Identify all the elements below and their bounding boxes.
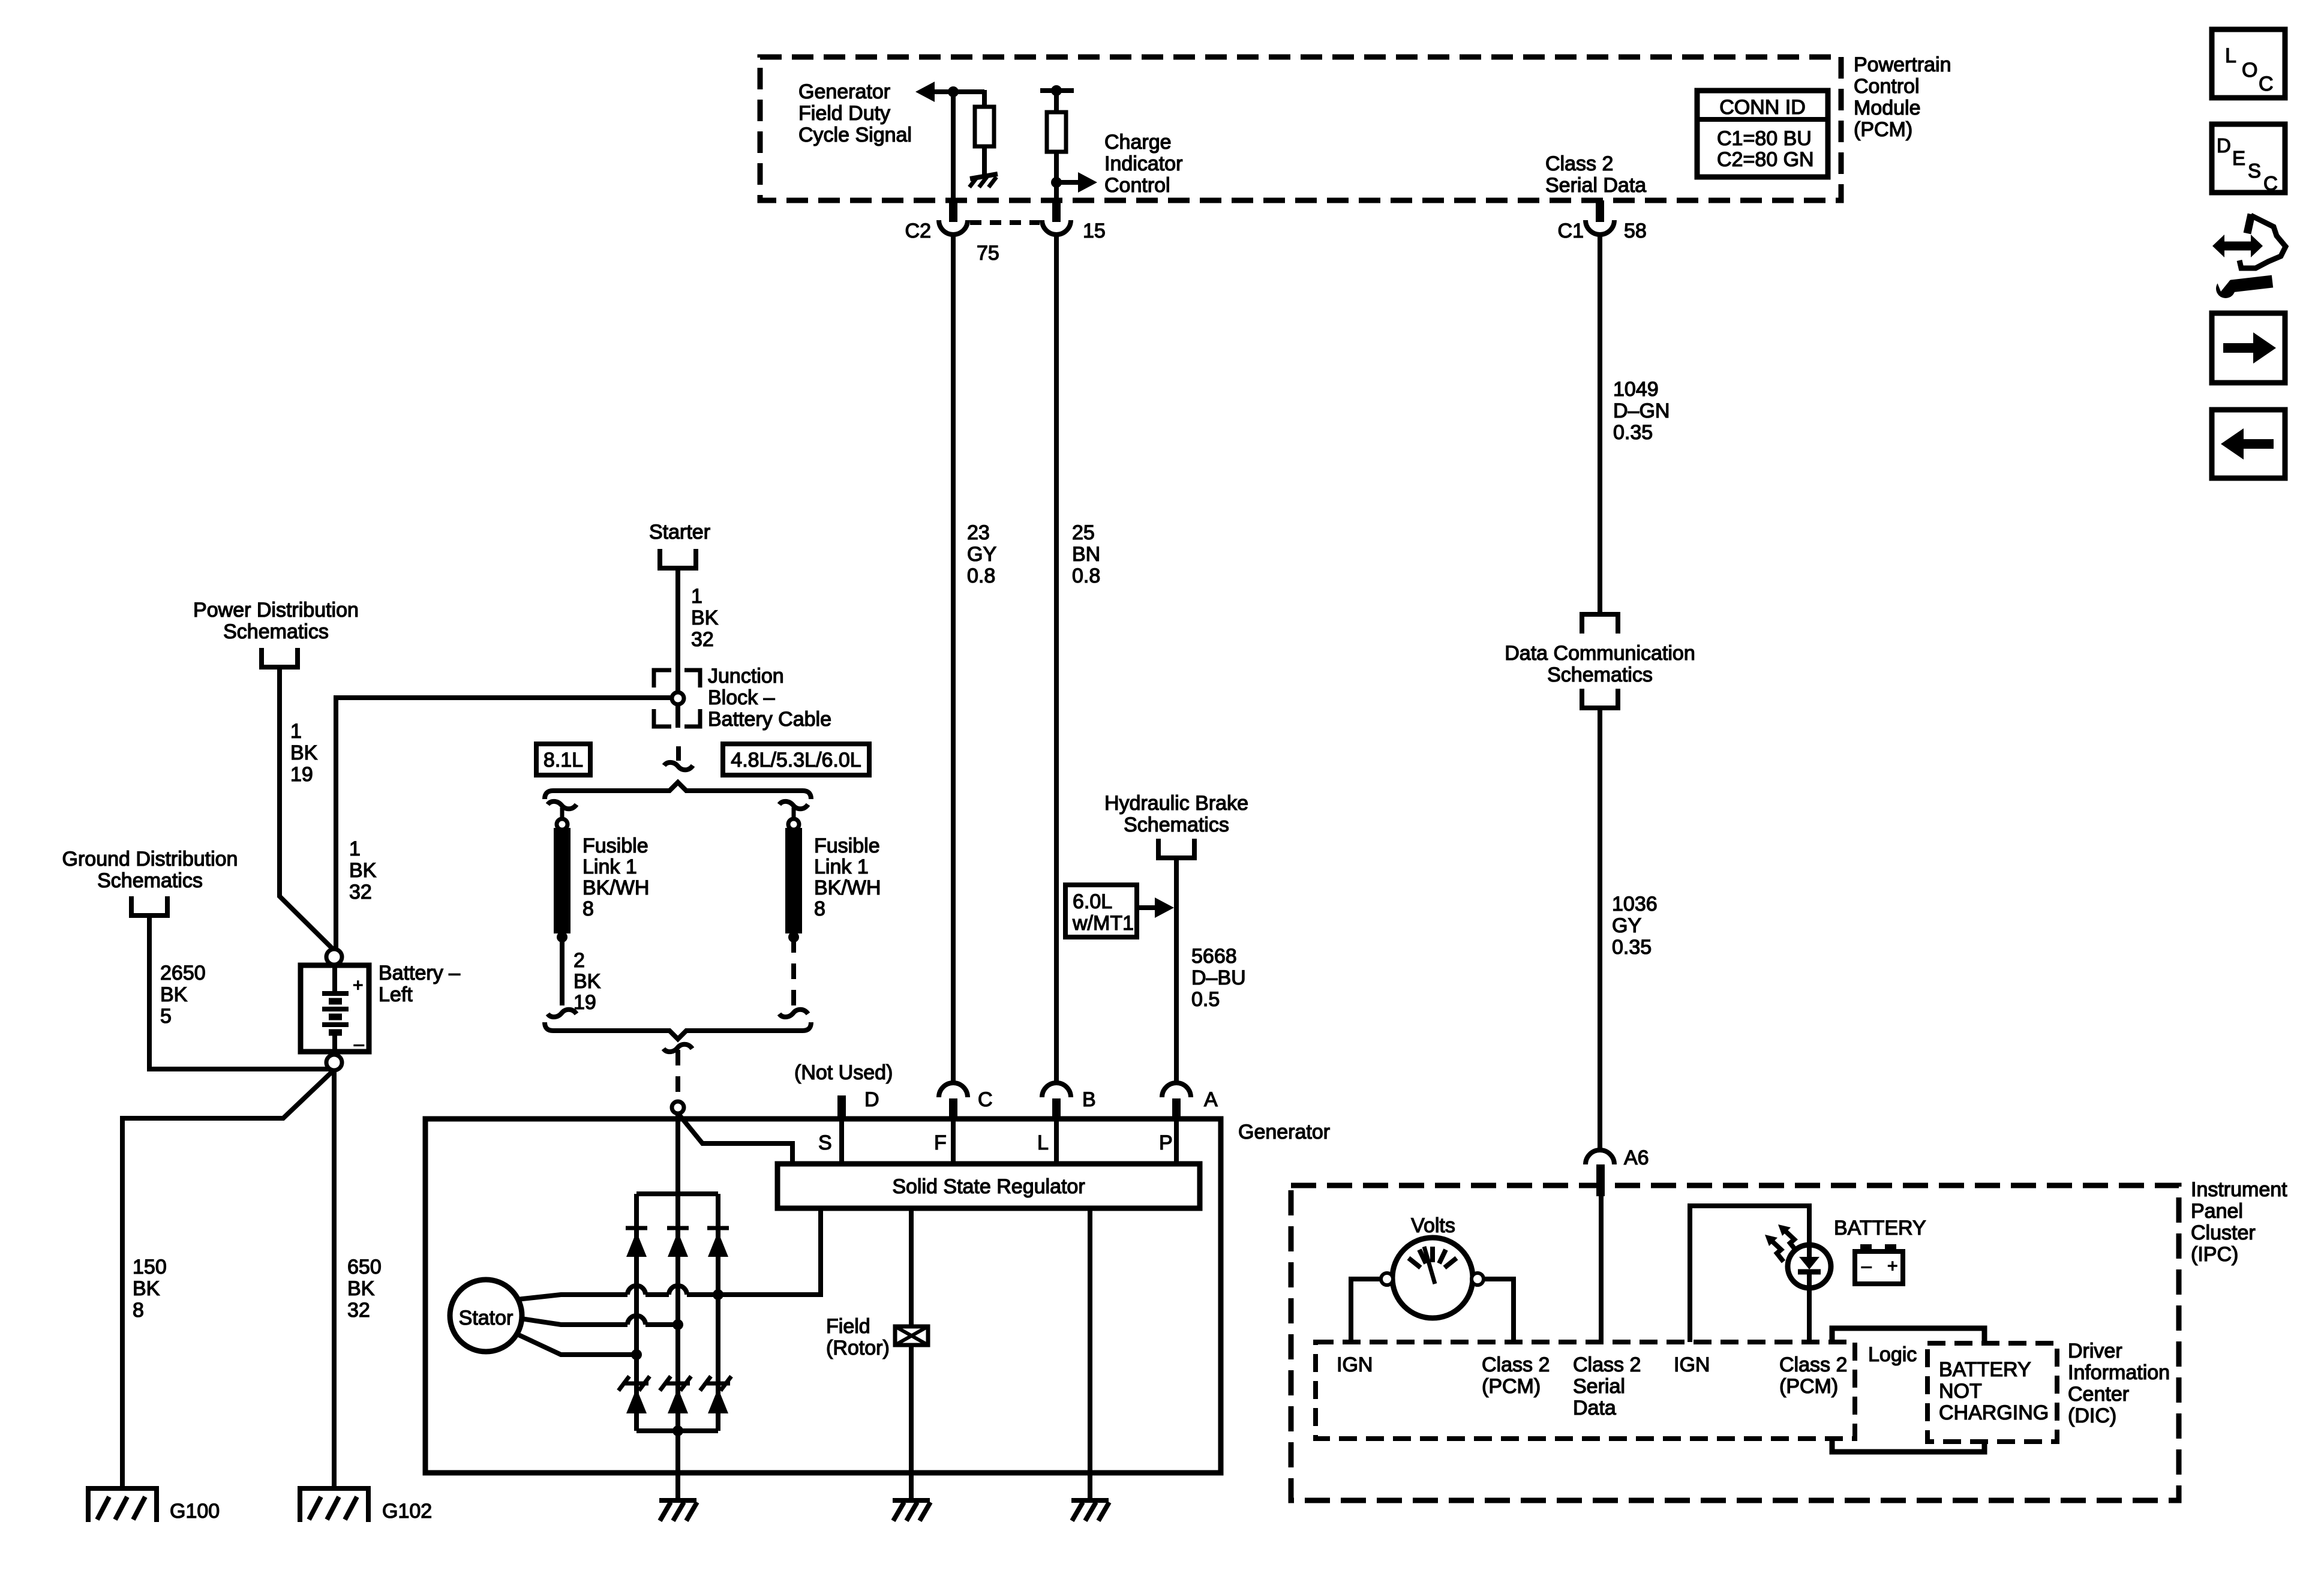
svg-text:0.35: 0.35 bbox=[1612, 936, 1652, 959]
icon back arrow box bbox=[2212, 410, 2285, 478]
svg-text:Control: Control bbox=[1854, 75, 1920, 98]
wire PCM internal horizontal pin 15 net bbox=[1040, 88, 1074, 93]
svg-text:58: 58 bbox=[1624, 220, 1647, 242]
svg-text:Class 2: Class 2 bbox=[1545, 152, 1613, 175]
svg-text:Center: Center bbox=[2068, 1383, 2129, 1406]
svg-text:CHARGING: CHARGING bbox=[1939, 1401, 2049, 1424]
svg-text:BK/WH: BK/WH bbox=[582, 876, 649, 899]
svg-text:2: 2 bbox=[574, 949, 585, 972]
svg-text:(PCM): (PCM) bbox=[1854, 118, 1912, 141]
svg-text:1: 1 bbox=[290, 720, 302, 743]
svg-text:BK: BK bbox=[160, 983, 188, 1006]
svg-text:8: 8 bbox=[582, 897, 594, 920]
wire 1 BK 19 from power distribution bbox=[280, 667, 334, 950]
node fusible link top circle (right) bbox=[788, 819, 799, 830]
svg-text:L: L bbox=[2225, 44, 2236, 67]
gauge M1 volts meter circle bbox=[1392, 1238, 1473, 1318]
off-page connector Hydraulic Brake Schematics bracket bbox=[1158, 839, 1194, 858]
wire pin P internal bbox=[1174, 1121, 1179, 1164]
wire rectifier top bus bbox=[636, 1191, 718, 1196]
svg-text:+: + bbox=[1887, 1256, 1898, 1276]
wire stator phase 3 bbox=[515, 1333, 636, 1355]
fusible link 1 BK/WH 8 (8.1L branch) bbox=[554, 828, 571, 933]
wire pin S internal bbox=[839, 1121, 844, 1164]
connector B stub bbox=[1052, 1098, 1061, 1119]
ground G100 bbox=[86, 1486, 159, 1491]
svg-text:GY: GY bbox=[1612, 914, 1641, 937]
svg-text:(DIC): (DIC) bbox=[2068, 1404, 2116, 1427]
battery B1 bottom lead bbox=[332, 1032, 337, 1052]
ground rectifier bridge bbox=[659, 1498, 696, 1503]
svg-text:75: 75 bbox=[977, 242, 999, 265]
svg-text:–: – bbox=[1861, 1256, 1872, 1276]
icon forward arrow box bbox=[2212, 313, 2285, 383]
wire rectifier bottom bus bbox=[636, 1428, 718, 1433]
connector C1 pin 15 stub bbox=[1052, 200, 1061, 222]
svg-text:8: 8 bbox=[133, 1299, 144, 1322]
off-page connector Starter bracket bbox=[660, 549, 696, 568]
wire 6.0L w/MT1 arrow lead bbox=[1137, 905, 1156, 910]
svg-text:G100: G100 bbox=[170, 1500, 220, 1523]
connector A6 stub into IPC bbox=[1596, 1164, 1605, 1196]
svg-text:(Not Used): (Not Used) bbox=[794, 1061, 893, 1084]
logic block box bbox=[1832, 1328, 1984, 1344]
node generator battery output node bbox=[672, 1101, 684, 1113]
svg-text:(PCM): (PCM) bbox=[1779, 1375, 1838, 1398]
node junction dot on pin 75 net bbox=[948, 86, 959, 97]
generator box bbox=[425, 1119, 1221, 1473]
connector C1 pin 15 half-circle bbox=[1042, 220, 1071, 235]
gauge M1 needle bbox=[1424, 1247, 1435, 1284]
battery telltale icon body bbox=[1855, 1251, 1903, 1284]
wire break hook below junction block bbox=[676, 746, 681, 761]
LED charge indicator circle bbox=[1788, 1245, 1831, 1288]
svg-text:4.8L/5.3L/6.0L: 4.8L/5.3L/6.0L bbox=[731, 749, 861, 772]
BATTERY NOT CHARGING dashed message box bbox=[1927, 1343, 2057, 1442]
wire 2650 BK 5 ground distribution bbox=[149, 915, 330, 1069]
svg-text:O: O bbox=[2242, 59, 2257, 82]
node battery positive terminal bbox=[326, 949, 342, 965]
svg-text:Link 1: Link 1 bbox=[814, 855, 869, 878]
svg-text:BK/WH: BK/WH bbox=[814, 876, 881, 899]
connector C1 pin 58 half-circle bbox=[1586, 220, 1614, 235]
svg-text:Ground Distribution: Ground Distribution bbox=[62, 848, 238, 870]
node phase 2 to column 2 bbox=[672, 1319, 683, 1330]
PCM module dashed box (Powertrain Control Module) bbox=[760, 57, 1841, 200]
icon diagnostic connector outline bbox=[2247, 214, 2251, 233]
wire 25 BN 0.8 from PCM C1-15 to generator L bbox=[1054, 235, 1059, 1083]
svg-text:Serial Data: Serial Data bbox=[1545, 174, 1646, 197]
svg-text:Battery –: Battery – bbox=[379, 962, 460, 984]
svg-text:+: + bbox=[353, 975, 364, 995]
svg-text:B: B bbox=[1082, 1088, 1096, 1111]
svg-text:C2: C2 bbox=[905, 220, 931, 242]
icon wrench bbox=[2216, 279, 2235, 298]
node battery negative terminal bbox=[326, 1055, 342, 1070]
stator winding circle bbox=[450, 1280, 522, 1352]
off-page connector Power Distribution Schematics bracket bbox=[262, 648, 298, 667]
wire 650 BK 32 battery negative to G102 bbox=[332, 1070, 337, 1488]
svg-text:Class 2: Class 2 bbox=[1482, 1353, 1550, 1376]
wire 5668 D-BU 0.5 to generator P bbox=[1174, 858, 1179, 1083]
svg-text:Schematics: Schematics bbox=[1547, 664, 1653, 686]
svg-text:Information: Information bbox=[2068, 1361, 2170, 1384]
svg-text:Junction: Junction bbox=[708, 665, 784, 688]
IPC dashed box (Instrument Panel Cluster) bbox=[1291, 1185, 2179, 1500]
wire 1036 GY 0.35 class 2 serial data lower bbox=[1598, 708, 1602, 1150]
svg-text:1036: 1036 bbox=[1612, 893, 1658, 915]
wire to charge indicator control arrow bbox=[1056, 180, 1078, 185]
hook terminal top of fusible link 1 (4.8/5.3/6.0 branch) bbox=[779, 801, 808, 809]
wire pin L internal bbox=[1054, 1121, 1059, 1164]
svg-text:5: 5 bbox=[160, 1005, 172, 1028]
svg-text:C2=80 GN: C2=80 GN bbox=[1717, 148, 1814, 171]
connector C half-circle at generator bbox=[939, 1083, 968, 1097]
icon DESC box bbox=[2212, 124, 2285, 193]
svg-text:Cycle Signal: Cycle Signal bbox=[798, 124, 912, 146]
icon LOC box bbox=[2212, 29, 2285, 98]
svg-text:Schematics: Schematics bbox=[97, 869, 203, 892]
svg-text:Class 2: Class 2 bbox=[1779, 1353, 1847, 1376]
svg-text:Instrument: Instrument bbox=[2191, 1178, 2287, 1201]
svg-text:CONN ID: CONN ID bbox=[1719, 96, 1806, 119]
diode D6 lower column 3 bbox=[706, 1382, 730, 1386]
wire resistor R1 top lead bbox=[982, 90, 987, 107]
svg-text:Data: Data bbox=[1573, 1397, 1616, 1419]
wire volts gauge class 2 side bbox=[1484, 1279, 1514, 1342]
svg-text:IGN: IGN bbox=[1674, 1353, 1710, 1376]
LED indicator arrows bbox=[1785, 1230, 1797, 1251]
junction block dashed corner top-left bbox=[654, 670, 671, 688]
gauge M1 right terminal bbox=[1472, 1273, 1484, 1285]
svg-text:S: S bbox=[818, 1131, 832, 1154]
svg-text:6.0L: 6.0L bbox=[1073, 890, 1112, 913]
junction block dashed corner bottom-right bbox=[684, 709, 700, 727]
label 6.0L w/MT1 option box bbox=[1065, 885, 1137, 937]
wire generator node into rectifier bridge bbox=[675, 1113, 680, 1194]
wire 2 BK 19 below fusible link bbox=[560, 937, 565, 1005]
svg-text:32: 32 bbox=[347, 1299, 370, 1322]
node junction dot on pin 15 net top bbox=[1051, 85, 1062, 96]
svg-text:L: L bbox=[1037, 1131, 1049, 1154]
wire PCM internal horizontal to resistor R1 bbox=[933, 89, 984, 94]
wire class 2 serial data into IPC bbox=[1599, 1194, 1604, 1342]
wire battery node feed to regulator bbox=[679, 1115, 792, 1164]
svg-text:150: 150 bbox=[133, 1256, 167, 1278]
svg-text:Fusible: Fusible bbox=[582, 834, 648, 857]
svg-text:19: 19 bbox=[290, 763, 313, 786]
wire stator phase 2 bbox=[521, 1319, 627, 1325]
icon diagnostic connector double arrow bbox=[2222, 242, 2253, 251]
svg-text:1: 1 bbox=[691, 585, 702, 608]
svg-text:Block –: Block – bbox=[708, 686, 775, 709]
off-page connector Ground Distribution Schematics bracket bbox=[131, 896, 167, 915]
svg-text:Panel: Panel bbox=[2191, 1200, 2243, 1223]
brace bottom of fusible link branches bbox=[545, 1022, 811, 1039]
svg-text:IGN: IGN bbox=[1337, 1353, 1373, 1376]
junction block dashed corner bottom-left bbox=[654, 709, 671, 727]
svg-text:S: S bbox=[2248, 160, 2261, 182]
svg-text:8: 8 bbox=[814, 897, 825, 920]
wire IGN feed to charge indicator LED bbox=[1690, 1206, 1809, 1342]
svg-text:D–GN: D–GN bbox=[1613, 400, 1670, 422]
svg-text:Schematics: Schematics bbox=[1124, 813, 1229, 836]
battery telltale icon terminals bbox=[1860, 1244, 1872, 1251]
battery B1 plates bbox=[322, 991, 349, 996]
wire resistor R1 bottom lead bbox=[982, 146, 987, 176]
diode D4 lower column 1 bbox=[624, 1382, 648, 1386]
svg-text:32: 32 bbox=[349, 881, 372, 903]
svg-text:Battery Cable: Battery Cable bbox=[708, 708, 831, 731]
LED triangle bbox=[1799, 1257, 1819, 1269]
wire dashed below right fusible link bbox=[791, 937, 796, 1005]
hook terminal bottom (8.1L branch) bbox=[548, 1010, 577, 1017]
connector C stub bbox=[949, 1098, 957, 1119]
svg-text:Link 1: Link 1 bbox=[582, 855, 637, 878]
svg-text:P: P bbox=[1159, 1131, 1173, 1154]
wire dashed into generator node bbox=[675, 1076, 680, 1103]
svg-text:Driver: Driver bbox=[2068, 1340, 2122, 1362]
wire rectifier column 3 bbox=[716, 1194, 720, 1431]
svg-text:C: C bbox=[2259, 73, 2274, 95]
svg-text:8.1L: 8.1L bbox=[544, 749, 583, 772]
svg-text:C: C bbox=[2263, 172, 2278, 194]
wire rectifier column 1 bbox=[634, 1194, 639, 1431]
connector A6 half-circle bbox=[1586, 1150, 1614, 1164]
wire volts gauge IGN side bbox=[1351, 1279, 1381, 1342]
node rectifier bottom bus center bbox=[672, 1425, 683, 1436]
svg-text:Charge: Charge bbox=[1104, 131, 1172, 154]
gauge M1 tick marks bbox=[1409, 1258, 1421, 1268]
svg-text:NOT: NOT bbox=[1939, 1380, 1982, 1403]
svg-text:(Rotor): (Rotor) bbox=[826, 1337, 890, 1359]
diode D3 upper column 3 bbox=[707, 1226, 729, 1230]
svg-text:Class 2: Class 2 bbox=[1573, 1353, 1641, 1376]
connector stub pin D (not used) bbox=[837, 1095, 846, 1119]
svg-text:Schematics: Schematics bbox=[223, 620, 329, 643]
CONN ID header divider bbox=[1697, 117, 1828, 122]
svg-text:BK: BK bbox=[290, 742, 318, 764]
connector B half-circle at generator bbox=[1042, 1083, 1071, 1097]
svg-text:Powertrain: Powertrain bbox=[1854, 53, 1951, 76]
fusible link 1 BK/WH 8 (4.8/5.3/6.0 branch) bbox=[785, 828, 802, 933]
wire regulator right leg to ground bbox=[1088, 1208, 1092, 1500]
svg-text:D: D bbox=[864, 1088, 879, 1111]
hook terminal bottom (right branch) bbox=[779, 1010, 808, 1017]
svg-text:A6: A6 bbox=[1624, 1146, 1649, 1169]
svg-text:15: 15 bbox=[1083, 220, 1106, 242]
svg-text:w/MT1: w/MT1 bbox=[1072, 912, 1134, 935]
svg-text:25: 25 bbox=[1072, 521, 1095, 544]
svg-text:Indicator: Indicator bbox=[1104, 152, 1182, 175]
svg-text:F: F bbox=[934, 1131, 947, 1154]
svg-text:–: – bbox=[354, 1034, 364, 1054]
svg-text:(PCM): (PCM) bbox=[1482, 1375, 1541, 1398]
wire pin 15 vertical lower bbox=[1054, 152, 1059, 200]
svg-text:BN: BN bbox=[1072, 543, 1100, 566]
label 4.8L/5.3L/6.0L option box bbox=[723, 744, 869, 775]
svg-text:E: E bbox=[2232, 147, 2245, 169]
svg-text:0.5: 0.5 bbox=[1191, 988, 1220, 1011]
svg-text:Data Communication: Data Communication bbox=[1505, 642, 1695, 665]
battery B1 Battery - Left box bbox=[301, 965, 369, 1052]
svg-text:Field: Field bbox=[826, 1315, 870, 1338]
wire battery negative diagonal to G100 branch bbox=[122, 1072, 332, 1488]
wire 1 BK 32 starter to junction block bbox=[675, 568, 680, 692]
svg-text:BK: BK bbox=[574, 970, 601, 993]
wire 1 BK 32 battery to junction block bbox=[336, 698, 672, 949]
svg-text:C1=80 BU: C1=80 BU bbox=[1717, 127, 1812, 150]
svg-text:Cluster: Cluster bbox=[2191, 1221, 2256, 1244]
svg-text:BK: BK bbox=[691, 607, 719, 629]
svg-text:Generator: Generator bbox=[1238, 1121, 1330, 1143]
svg-text:1049: 1049 bbox=[1613, 378, 1659, 401]
ground internal PCM ground for R1 bbox=[970, 174, 998, 179]
node fusible link bottom dot (8.1L) bbox=[557, 932, 568, 942]
svg-text:D: D bbox=[2217, 134, 2231, 157]
junction block dashed corner top-right bbox=[684, 670, 700, 688]
svg-text:BATTERY: BATTERY bbox=[1834, 1217, 1926, 1239]
svg-text:C: C bbox=[978, 1088, 993, 1111]
label 8.1L option box bbox=[536, 744, 590, 775]
off-page connector Data Communication Schematics top bracket bbox=[1582, 614, 1618, 634]
gauge M1 left terminal bbox=[1381, 1273, 1393, 1285]
diode D2 upper column 2 bbox=[667, 1226, 689, 1230]
svg-text:BK: BK bbox=[347, 1277, 375, 1300]
arrow 6.0L w/MT1 points to wire bbox=[1155, 897, 1174, 918]
svg-text:5668: 5668 bbox=[1191, 945, 1237, 968]
node phase 1 to column 3 bbox=[713, 1289, 723, 1300]
svg-text:BK: BK bbox=[349, 859, 377, 882]
node junction dot charge indicator control tap bbox=[1051, 177, 1062, 188]
resistor R2 (charge indicator driver) bbox=[1047, 112, 1066, 152]
svg-text:Field Duty: Field Duty bbox=[798, 102, 890, 125]
svg-text:G102: G102 bbox=[382, 1500, 432, 1523]
diode D1 upper column 1 bbox=[626, 1226, 647, 1230]
ground field rotor bbox=[893, 1498, 930, 1503]
connector C2 pin 75 stub bbox=[949, 200, 957, 222]
wire pin 75 vertical inside PCM bbox=[951, 92, 956, 200]
CONN ID table box bbox=[1697, 91, 1828, 177]
svg-text:BATTERY: BATTERY bbox=[1939, 1358, 2031, 1381]
svg-text:Solid State Regulator: Solid State Regulator bbox=[892, 1175, 1085, 1198]
connector A stub bbox=[1172, 1098, 1181, 1119]
svg-text:Module: Module bbox=[1854, 97, 1921, 119]
wire LED to class 2 (PCM) pin bbox=[1807, 1288, 1812, 1342]
svg-text:A: A bbox=[1204, 1088, 1218, 1111]
wire rectifier to case ground bbox=[675, 1431, 680, 1500]
wire 1049 D-GN 0.35 class 2 serial data upper bbox=[1598, 235, 1602, 614]
node fusible link top circle (8.1L) bbox=[557, 819, 568, 830]
wire junction block down stub bbox=[675, 704, 680, 728]
connector dashed tie line C2 to C1 bbox=[970, 220, 1040, 225]
resistor R1 (PCM pull-down) bbox=[975, 107, 994, 146]
hook terminal top of fusible link 1 (8.1L branch) bbox=[548, 801, 577, 809]
svg-text:Volts: Volts bbox=[1411, 1214, 1455, 1237]
svg-text:650: 650 bbox=[347, 1256, 382, 1278]
svg-text:Control: Control bbox=[1104, 174, 1170, 197]
svg-text:GY: GY bbox=[967, 543, 996, 566]
node phase 3 to column 1 bbox=[631, 1349, 642, 1360]
wire regulator to field rotor bbox=[909, 1208, 914, 1326]
IPC internal dashed interface box bbox=[1316, 1342, 1855, 1439]
svg-text:C1: C1 bbox=[1558, 220, 1584, 242]
wire rectifier column 2 bbox=[675, 1194, 680, 1431]
battery B1 top lead bbox=[332, 965, 337, 992]
wire pin F internal bbox=[951, 1121, 956, 1164]
svg-text:D–BU: D–BU bbox=[1191, 966, 1246, 989]
svg-text:1: 1 bbox=[349, 837, 361, 860]
svg-text:Stator: Stator bbox=[459, 1307, 514, 1329]
node fusible link bottom dot (right) bbox=[788, 932, 799, 942]
svg-text:Hydraulic Brake: Hydraulic Brake bbox=[1104, 792, 1248, 815]
svg-text:Logic: Logic bbox=[1868, 1343, 1917, 1366]
svg-text:Starter: Starter bbox=[649, 521, 710, 544]
svg-text:(IPC): (IPC) bbox=[2191, 1243, 2238, 1266]
svg-text:19: 19 bbox=[574, 991, 596, 1014]
arrow Charge Indicator Control output bbox=[1078, 172, 1097, 193]
node junction block battery cable splice bbox=[672, 692, 684, 704]
svg-text:0.35: 0.35 bbox=[1613, 421, 1653, 444]
svg-text:Left: Left bbox=[379, 983, 413, 1006]
svg-text:0.8: 0.8 bbox=[967, 565, 995, 587]
connector A half-circle at generator bbox=[1162, 1083, 1191, 1097]
svg-text:23: 23 bbox=[967, 521, 990, 544]
svg-text:BK: BK bbox=[133, 1277, 160, 1300]
field rotor winding symbol bbox=[895, 1326, 928, 1345]
svg-text:0.8: 0.8 bbox=[1072, 565, 1100, 587]
ground regulator right leg bbox=[1071, 1498, 1109, 1503]
regulator U1 Solid State Regulator box bbox=[777, 1164, 1200, 1208]
wire pin 15 vertical upper bbox=[1054, 91, 1059, 112]
svg-text:2650: 2650 bbox=[160, 962, 206, 984]
svg-text:Power Distribution: Power Distribution bbox=[193, 599, 359, 622]
wire 23 GY 0.8 from PCM C2-75 to generator F bbox=[951, 235, 956, 1083]
svg-text:Generator: Generator bbox=[798, 80, 890, 103]
connector C2 pin 75 half-circle bbox=[939, 220, 968, 235]
ground G102 bbox=[298, 1486, 371, 1491]
wire field rotor to ground bbox=[909, 1345, 914, 1500]
svg-text:Serial: Serial bbox=[1573, 1375, 1625, 1398]
arrow Generator Field Duty Cycle Signal output bbox=[915, 82, 935, 102]
svg-text:32: 32 bbox=[691, 628, 714, 651]
wire regulator phase sense to stator phase 3 bbox=[718, 1208, 821, 1295]
LED cathode bar bbox=[1798, 1269, 1821, 1275]
svg-text:Fusible: Fusible bbox=[814, 834, 880, 857]
brace top of fusible link branches bbox=[545, 782, 811, 799]
off-page connector Data Communication Schematics bottom bracket bbox=[1582, 689, 1618, 708]
wire break hook above generator node bbox=[663, 1044, 692, 1052]
LED wire through symbol bbox=[1807, 1245, 1812, 1257]
wire stator phase 1 bbox=[517, 1295, 627, 1299]
diode D5 lower column 2 bbox=[666, 1382, 690, 1386]
connector C1 pin 58 stub bbox=[1596, 200, 1604, 222]
